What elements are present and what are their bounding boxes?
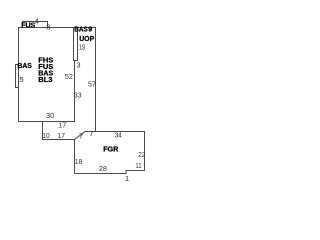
svg-text:28: 28 (99, 164, 107, 173)
svg-text:30: 30 (46, 111, 54, 120)
svg-text:22: 22 (138, 150, 145, 159)
svg-text:BAS: BAS (74, 26, 88, 33)
svg-text:BAS: BAS (17, 63, 32, 70)
wire main left wall (18, 28, 20, 122)
wire FGR bottom right step (126, 171, 145, 174)
svg-text:3: 3 (76, 60, 80, 69)
wire left BAS bump outline (16, 65, 19, 88)
svg-text:5: 5 (19, 75, 23, 84)
wire main bottom edge (19, 121, 75, 123)
svg-text:17: 17 (57, 131, 65, 140)
wire main right wall upper (73, 28, 75, 61)
wire FGR top edge (85, 131, 145, 133)
svg-text:BL3: BL3 (38, 77, 52, 84)
wire strip right wall (95, 28, 97, 132)
svg-text:7: 7 (89, 129, 93, 138)
svg-text:10: 10 (42, 131, 49, 140)
wire roof top edge (19, 27, 96, 29)
svg-text:FGR: FGR (103, 146, 118, 153)
svg-text:FUS: FUS (21, 23, 35, 30)
wire FUS bump outline (23, 22, 48, 28)
wire FGR right wall (144, 132, 146, 171)
svg-text:34: 34 (115, 130, 122, 139)
svg-text:57: 57 (88, 79, 96, 88)
wire main right wall lower (74, 61, 76, 122)
wire step left vertical (42, 122, 44, 140)
wire diagonal wall (75, 132, 86, 140)
wire step bottom horizontal (43, 139, 75, 141)
svg-text:52: 52 (65, 72, 73, 81)
wire notch right line (77, 28, 79, 61)
svg-text:17: 17 (58, 120, 66, 129)
svg-text:19: 19 (79, 42, 85, 51)
svg-text:18: 18 (75, 157, 83, 166)
svg-text:11: 11 (135, 161, 141, 170)
svg-text:33: 33 (74, 90, 82, 99)
svg-text:3: 3 (46, 23, 50, 32)
wire notch connector (74, 60, 78, 62)
wire FGR bottom edge (75, 173, 127, 175)
svg-text:9: 9 (88, 26, 92, 33)
svg-text:7: 7 (79, 132, 83, 141)
wire FGR left wall (74, 140, 76, 174)
svg-text:1: 1 (125, 174, 129, 183)
svg-text:4: 4 (35, 17, 39, 26)
